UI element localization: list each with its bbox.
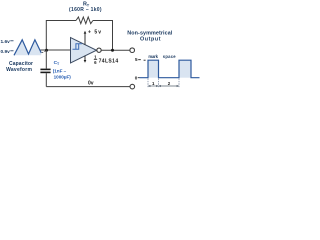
svg-text:mark: mark [148, 54, 158, 59]
svg-text:0.9v: 0.9v [1, 49, 11, 55]
svg-text:5: 5 [135, 57, 138, 62]
wire: capacitor down to 0v rail [45, 73, 47, 86]
wire: input horizontal to gate [41, 49, 71, 51]
capacitor waveform trace [14, 40, 41, 56]
op-amp U1: 74LS14 schmitt inverter triangle [71, 38, 97, 64]
dashed ticks below pulse edges [147, 79, 149, 89]
node: input junction dot [45, 49, 48, 52]
svg-text:74LS14: 74LS14 [99, 58, 119, 64]
terminal: 0v output circle [130, 84, 135, 89]
terminal: output circle [130, 48, 135, 53]
dashed pointer to node [42, 51, 46, 53]
svg-text:0v: 0v [88, 80, 94, 86]
svg-text:Capacitor: Capacitor [9, 61, 33, 67]
output pulse 1 fill [148, 60, 159, 77]
svg-text:+ 5v: + 5v [88, 30, 101, 36]
capacitor waveform fill [14, 40, 41, 56]
output bubble [97, 48, 101, 52]
resistor RT zigzag [76, 17, 93, 24]
wire: resistor to right corner down to output [93, 21, 113, 51]
output pulse 2 fill [179, 60, 191, 77]
svg-text:1000µF): 1000µF) [54, 74, 72, 79]
hysteresis symbol [73, 44, 82, 50]
svg-text:(1nF –: (1nF – [53, 68, 67, 73]
svg-text:(160R – 1k0): (160R – 1k0) [69, 7, 102, 13]
+5v supply pin arrow [84, 33, 86, 45]
capacitor CT plates [40, 69, 50, 71]
dimension arrows row [148, 85, 158, 87]
svg-text:1.6v: 1.6v [1, 39, 11, 45]
wire: output to terminal [101, 49, 130, 51]
wire: input node vertical up to top rail and top rail to resistor [46, 21, 76, 51]
svg-text:0: 0 [135, 76, 138, 81]
svg-text:Output: Output [140, 36, 161, 42]
wire: 0v bottom rail [46, 86, 130, 88]
wire: junction down to capacitor [45, 50, 47, 69]
node: output junction dot [111, 49, 114, 52]
svg-text:Waveform: Waveform [6, 67, 32, 73]
output waveform trace [140, 60, 200, 77]
svg-text:space: space [163, 54, 176, 59]
0v pin arrow (down) [84, 56, 86, 61]
